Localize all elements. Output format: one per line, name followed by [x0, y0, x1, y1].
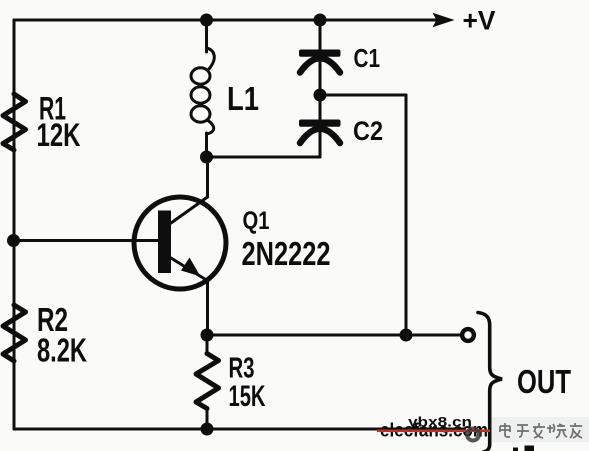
svg-text:+V: +V [463, 6, 496, 36]
svg-text:Q1: Q1 [243, 207, 270, 235]
svg-text:C1: C1 [354, 43, 381, 73]
svg-text:OUT: OUT [517, 363, 571, 400]
svg-text:L1: L1 [227, 80, 259, 117]
svg-text:8.2K: 8.2K [37, 332, 87, 369]
svg-text:15K: 15K [229, 380, 266, 413]
svg-text:C2: C2 [353, 116, 383, 146]
svg-text:2N2222: 2N2222 [242, 235, 331, 272]
svg-text:12K: 12K [37, 117, 81, 153]
